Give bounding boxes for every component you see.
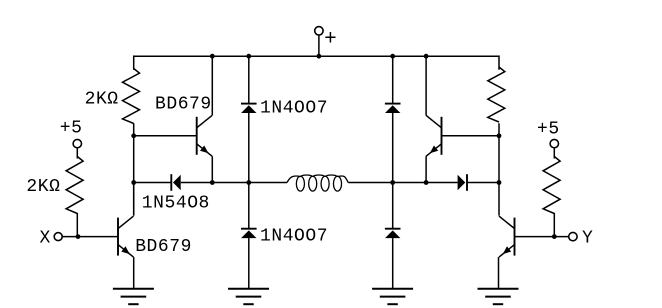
terminal: +5 left xyxy=(73,139,81,147)
junction: D1 column on top rail xyxy=(246,54,251,59)
diode D2 1N4007 (lower left, cathode up) xyxy=(241,229,257,238)
terminal: + supply xyxy=(315,27,323,35)
terminal: +5 right xyxy=(550,139,558,147)
wire: Q2 base wire xyxy=(134,135,197,137)
wire: R4 bottom to Y wire xyxy=(553,213,555,237)
svg-text:1N54O8: 1N54O8 xyxy=(142,194,210,214)
svg-text:+: + xyxy=(324,28,337,51)
junction: left end of middle rail xyxy=(131,180,136,185)
terminal: Y output xyxy=(569,232,577,240)
label: 1N4007 for D2 xyxy=(260,226,328,246)
wire: top rail to diode D3 xyxy=(392,56,394,103)
junction: R2 / Q3 base node xyxy=(497,133,502,138)
wire: +5 left terminal to R3 xyxy=(76,148,78,159)
svg-text:+5: +5 xyxy=(60,118,83,138)
diode D5 1N5408 (points left) xyxy=(171,174,180,191)
wire: middle rail node down to Q4 collector xyxy=(498,183,500,216)
junction: D1 column on middle rail xyxy=(246,180,251,185)
wire: middle rail, D1 column to inductor xyxy=(249,182,287,184)
label: 1N4007 for D1 xyxy=(260,99,328,119)
wire: middle rail, D6 to right node xyxy=(467,182,499,184)
wire: middle rail, D3 column to Q3 emitter node xyxy=(393,182,426,184)
label: BD679 for Q1 xyxy=(135,237,192,257)
svg-text:Y: Y xyxy=(582,228,593,248)
svg-text:X: X xyxy=(40,228,51,248)
label: X (input) xyxy=(40,228,51,248)
transistor Q3 BD679 (upper right, NPN, mirrored) xyxy=(426,115,442,156)
diode D3 1N4007 (upper right of center, cathode up) xyxy=(385,104,401,113)
wire: Q2 collector to top rail xyxy=(211,56,213,115)
transistor Q2 BD679 (upper left, NPN) xyxy=(197,115,213,156)
wire: X terminal to Q1 base xyxy=(62,236,118,238)
junction: R3 on X wire xyxy=(76,234,81,239)
wire: Q4 base wire to Y terminal xyxy=(515,236,569,238)
diode D1 1N4007 (upper left, cathode up) xyxy=(241,104,257,113)
wire: middle rail, Q2 emitter node to D1 column xyxy=(212,182,249,184)
junction: Q3 collector on top rail xyxy=(424,54,429,59)
wire: Q3 base wire xyxy=(442,135,500,137)
resistor R1 2K-ohm (collector load, top left) xyxy=(123,69,140,124)
wire: Q3 collector to top rail xyxy=(425,56,427,115)
wire: D2 to ground xyxy=(248,238,250,289)
svg-text:BD679: BD679 xyxy=(155,95,212,115)
wire: D3 to middle rail xyxy=(392,113,394,183)
inductor L1 (4 loops) xyxy=(287,175,348,191)
label: + (supply polarity) xyxy=(324,28,337,51)
wire: R1 bottom to Q2 base node xyxy=(133,123,135,136)
label: +5 (right) xyxy=(537,119,560,139)
wire: + terminal to top rail xyxy=(318,35,320,56)
svg-text:2KΩ: 2KΩ xyxy=(26,177,60,197)
label: 2K-ohm for R3 xyxy=(26,177,60,197)
wire: top rail corner to R2 xyxy=(498,55,500,69)
junction: right end of middle rail xyxy=(497,180,502,185)
wire: middle rail, D5 to Q2 emitter node xyxy=(181,182,213,184)
transistor Q4 BD679 (lower right, NPN, mirrored) xyxy=(499,216,515,257)
wire: Q3 base node down to middle rail xyxy=(498,136,500,183)
junction: Q2 collector on top rail xyxy=(210,54,215,59)
wire: middle rail to diode D2 xyxy=(248,183,250,229)
ground: under D2 xyxy=(228,289,269,304)
wire: middle rail to diode D4 xyxy=(392,183,394,229)
ground: under D4 xyxy=(372,289,413,304)
wire: middle rail, left node to D5 xyxy=(134,182,172,184)
wire: D1 to middle rail xyxy=(248,113,250,183)
svg-text:+5: +5 xyxy=(537,119,560,139)
wire: +5 right terminal to R4 xyxy=(553,148,555,159)
wire: Q1 emitter to ground xyxy=(133,257,135,289)
junction: Q3 emitter on middle rail xyxy=(424,180,429,185)
wire: Q1 collector slant top to middle-rail node xyxy=(133,183,135,216)
label: 2K-ohm for R1 xyxy=(85,89,119,109)
junction: D3 column on top rail xyxy=(390,54,395,59)
label: +5 (left) xyxy=(60,118,83,138)
svg-text:2KΩ: 2KΩ xyxy=(85,89,119,109)
junction: R1 / Q2 base node xyxy=(131,133,136,138)
svg-text:BD679: BD679 xyxy=(135,237,192,257)
svg-text:1N4OO7: 1N4OO7 xyxy=(260,226,328,246)
wire: top supply rail xyxy=(134,55,499,57)
diode D4 1N4007 (lower right of center, cathode up) xyxy=(385,229,401,238)
label: 1N5408 for D5 xyxy=(142,194,210,214)
diode D6 (points right) xyxy=(458,174,467,191)
terminal: X input xyxy=(54,233,62,241)
junction: + supply on top rail xyxy=(317,54,322,59)
svg-text:1N4OO7: 1N4OO7 xyxy=(260,99,328,119)
wire: R2 bottom to Q3 base node xyxy=(498,123,500,136)
label: BD679 for Q2 xyxy=(155,95,212,115)
wire: middle rail node down to Q1 collector xyxy=(133,183,135,216)
wire: middle rail, Q3 emitter node to D6 xyxy=(426,182,458,184)
transistor Q1 BD679 (lower left, NPN) xyxy=(118,216,134,257)
wire: middle rail, inductor to D3 column xyxy=(348,182,393,184)
wire: Q3 emitter to middle rail xyxy=(425,156,427,182)
wire: Q2 base node down to middle rail xyxy=(133,136,135,183)
ground: under Q1 xyxy=(113,289,154,304)
resistor R4 2K-ohm (Y pull-up) xyxy=(543,157,560,214)
resistor R3 2K-ohm (X pull-up) xyxy=(66,157,83,214)
wire: Q2 emitter to middle rail xyxy=(211,156,213,182)
wire: R3 bottom to X wire xyxy=(76,213,78,237)
junction: R4 on Y wire xyxy=(552,234,557,239)
junction: Q2 emitter on middle rail xyxy=(210,180,215,185)
ground: under Q4 xyxy=(478,289,519,304)
junction: D3 column on middle rail xyxy=(390,180,395,185)
wire: D4 to ground xyxy=(392,238,394,289)
resistor R2 2K-ohm (collector load, top right) xyxy=(488,67,505,122)
wire: top rail to diode D1 xyxy=(248,56,250,103)
wire: top rail corner to R1 xyxy=(133,55,135,69)
label: Y (output) xyxy=(582,228,593,248)
wire: Q4 emitter to ground xyxy=(498,257,500,289)
